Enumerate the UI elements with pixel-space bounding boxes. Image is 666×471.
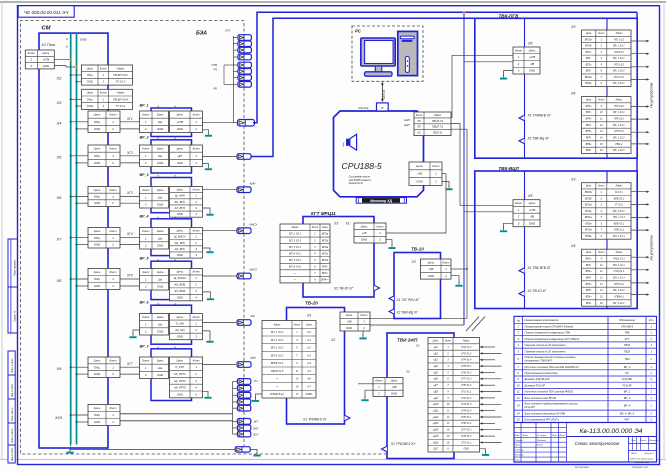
svg-text:ВП2а-: ВП2а- xyxy=(585,82,592,85)
svg-text:Адрес: Адрес xyxy=(615,251,624,254)
diagonal wire pair xyxy=(466,317,479,332)
svg-text:-0В: -0В xyxy=(530,62,534,66)
ТВК-ПГВ plug X2 xyxy=(519,138,525,144)
svg-text:Цепь: Цепь xyxy=(529,48,536,52)
svg-text:2: 2 xyxy=(444,274,447,278)
svg-text:GND: GND xyxy=(177,392,183,396)
svg-text:Х2 ТВИ-ВЦ ХГ: Х2 ТВИ-ВЦ ХГ xyxy=(396,311,419,315)
svg-text:GND: GND xyxy=(87,80,93,84)
svg-text:ВП5-: ВП5- xyxy=(586,137,592,140)
ground bottom connector xyxy=(250,449,257,452)
svg-text:ВП1Б+: ВП1Б+ xyxy=(585,191,593,194)
svg-text:К: К xyxy=(66,45,68,49)
svg-text:+27В: +27В xyxy=(42,57,49,61)
svg-text:УЕ7: УЕ7 xyxy=(254,421,259,424)
svg-text:Адрес: Адрес xyxy=(116,91,125,95)
svg-text:А:2: А:2 xyxy=(306,347,311,350)
wire X10-2 long xyxy=(120,420,233,422)
svg-text:2: 2 xyxy=(144,161,147,165)
wire 24V to TV20 X2 xyxy=(370,324,464,326)
svg-text:ВП_4 Х2:2: ВП_4 Х2:2 xyxy=(271,354,284,357)
svg-text:НГЦ-267: НГЦ-267 xyxy=(525,405,536,409)
connector BEA P1 xyxy=(238,35,252,41)
ВР_1 left table xyxy=(140,111,169,133)
ТВК-ВЦЛ X5 table xyxy=(513,200,540,227)
page bottom edge xyxy=(0,459,666,461)
power block ВР_2 box xyxy=(151,140,192,173)
svg-text:Х1 ТРИ88-5 ХГ: Х1 ТРИ88-5 ХГ xyxy=(302,418,328,422)
ТВК-ВЦЛ X4 table xyxy=(582,249,632,306)
svg-text:ВП_1 Х2:1: ВП_1 Х2:1 xyxy=(289,233,302,236)
connector Х7 table xyxy=(88,228,120,249)
svg-text:+Д8: +Д8 xyxy=(433,390,438,393)
svg-text:ВП_2 Х2:1: ВП_2 Х2:1 xyxy=(613,277,625,280)
svg-text:УП2Х1:2: УП2Х1:2 xyxy=(614,51,624,54)
svg-text:ВП1б: ВП1б xyxy=(322,239,329,242)
svg-text:Адрес: Адрес xyxy=(462,340,471,343)
svg-text:Юдин: Юдин xyxy=(537,444,544,447)
wire VR_6 to connector MN xyxy=(203,322,237,324)
svg-text:2: 2 xyxy=(194,241,197,245)
svg-text:ВП1а-: ВП1а- xyxy=(585,210,592,213)
svg-text:Цепь: Цепь xyxy=(361,224,368,228)
svg-text:УП1 Х1:2: УП1 Х1:2 xyxy=(614,38,625,41)
svg-text:ВР_6: ВР_6 xyxy=(140,301,150,305)
svg-text:Х5: Х5 xyxy=(527,194,532,198)
wire Х5 to buses xyxy=(71,155,88,157)
svg-text:Формат А3: Формат А3 xyxy=(632,465,648,469)
svg-text:-Д17: -Д17 xyxy=(433,448,439,451)
svg-text:Общ: Общ xyxy=(94,413,101,417)
svg-text:GND: GND xyxy=(157,243,163,247)
svg-text:Конт: Конт xyxy=(432,164,440,168)
svg-text:АК_ВПБ: АК_ВПБ xyxy=(173,283,185,287)
svg-text:Цепь: Цепь xyxy=(87,91,94,95)
svg-text:УП3 Х1:3: УП3 Х1:3 xyxy=(461,403,472,406)
svg-text:Т7:Х1-2: Т7:Х1-2 xyxy=(116,104,126,108)
ground VR_4 xyxy=(203,247,211,250)
svg-text:Х9: Х9 xyxy=(56,366,63,371)
svg-text:ВП_2 Х2:2: ВП_2 Х2:2 xyxy=(271,339,284,342)
wires X4 to VR_1 xyxy=(120,121,140,123)
PC tower icon xyxy=(398,31,418,75)
svg-text:Х4: Х4 xyxy=(56,121,63,126)
svg-text:ТВ-10: ТВ-10 xyxy=(411,246,424,251)
svg-text:GND: GND xyxy=(157,329,163,333)
ВР_2 left table xyxy=(140,145,169,167)
svg-text:Цепь: Цепь xyxy=(391,379,398,383)
svg-text:АЗ_ВПБ: АЗ_ВПБ xyxy=(173,289,185,293)
svg-text:ВР_1 Х2:1: ВР_1 Х2:1 xyxy=(613,124,625,127)
svg-text:УП4 Х1:2: УП4 Х1:2 xyxy=(614,76,625,79)
connector BEA P8 xyxy=(238,82,252,88)
svg-text:Цепь: Цепь xyxy=(42,51,49,55)
CPU addr table xyxy=(414,112,451,136)
ТВК-ВЦЛ X3 table xyxy=(582,183,632,240)
block TVI 24/P box xyxy=(387,333,454,459)
svg-text:Х3: Х3 xyxy=(570,25,575,29)
svg-text:АЗ_ВГЬ: АЗ_ВГЬ xyxy=(174,247,185,251)
CPU power table xyxy=(409,162,442,185)
svg-text:CPU188-5: CPU188-5 xyxy=(621,325,634,329)
svg-text:А:6: А:6 xyxy=(306,378,311,381)
svg-text:ВР_1 Х2:1: ВР_1 Х2:1 xyxy=(613,111,625,114)
svg-text:ЛЮ_к Х1:1: ЛЮ_к Х1:1 xyxy=(612,216,626,219)
PC monitor icon xyxy=(361,38,395,66)
svg-text:УП8 Х1:4: УП8 Х1:4 xyxy=(461,384,472,387)
svg-text:Цепь: Цепь xyxy=(322,226,329,229)
svg-text:+27В: +27В xyxy=(529,208,536,212)
svg-text:2: 2 xyxy=(111,372,114,376)
svg-text:Х10: Х10 xyxy=(54,415,63,420)
svg-text:ВП1в: ВП1в xyxy=(322,246,329,249)
ТВК-ВЦЛ output arrows xyxy=(631,191,650,193)
chevron KGT X2 xyxy=(374,285,380,291)
svg-text:Цепь: Цепь xyxy=(427,260,434,264)
svg-text:ВП1+: ВП1+ xyxy=(586,51,593,54)
RS-232 link xyxy=(381,82,384,103)
svg-text:ВП6+: ВП6+ xyxy=(586,296,593,299)
svg-text:Подп. и дата: Подп. и дата xyxy=(11,428,14,443)
svg-text:ВП_2 Х2:1: ВП_2 Х2:1 xyxy=(289,239,302,242)
svg-text:ВНГВ Х1:4: ВНГВ Х1:4 xyxy=(271,362,284,365)
svg-text:Конт: Конт xyxy=(598,185,604,188)
svg-text:Конт: Конт xyxy=(598,99,604,102)
svg-text:Цепь: Цепь xyxy=(586,185,592,188)
svg-text:Конт: Конт xyxy=(100,91,108,95)
svg-text:Наименование компонента: Наименование компонента xyxy=(525,318,559,322)
svg-text:Шв: Шв xyxy=(158,277,163,281)
chevron TV-20 X1 xyxy=(345,415,351,421)
svg-text:Цепь: Цепь xyxy=(157,270,164,274)
svg-text:УТ Х1:1: УТ Х1:1 xyxy=(615,204,624,207)
connector Х8 table xyxy=(88,269,120,290)
page top edge xyxy=(0,1,666,3)
svg-text:ВП2а-: ВП2а- xyxy=(585,222,592,225)
title block xyxy=(514,423,657,463)
TVI X2 power table xyxy=(373,378,403,397)
svg-text:Перв. примен.: Перв. примен. xyxy=(13,259,16,276)
svg-text:Подп. и дата: Подп. и дата xyxy=(11,358,14,373)
connector X10 table xyxy=(88,405,120,426)
svg-text:Адрес: Адрес xyxy=(615,99,624,102)
svg-text:АВХВ Х1:5: АВХВ Х1:5 xyxy=(270,370,284,373)
ВР_4 right table xyxy=(170,228,203,259)
svg-text:GND: GND xyxy=(177,212,183,216)
svg-text:ВР_1 Х2:1: ВР_1 Х2:1 xyxy=(613,137,625,140)
svg-text:УП3 Х1:2: УП3 Х1:2 xyxy=(614,63,625,66)
svg-text:Цепь: Цепь xyxy=(346,313,353,317)
svg-text:Х1 Пит.: Х1 Пит. xyxy=(40,43,56,47)
svg-text:Кв-113.00.00.000 Э4: Кв-113.00.00.000 Э4 xyxy=(579,428,642,435)
svg-text:Цепь: Цепь xyxy=(176,270,183,274)
svg-text:Цепь: Цепь xyxy=(586,32,592,35)
connector Х2 table xyxy=(82,65,133,85)
ВР_6 right table xyxy=(170,314,203,340)
ВР_7 right table xyxy=(170,357,203,398)
svg-text:Конт: Конт xyxy=(142,147,150,151)
svg-text:Конт: Конт xyxy=(360,313,368,317)
svg-text:УП2 Х1:2: УП2 Х1:2 xyxy=(461,397,472,400)
svg-text:А:0: А:0 xyxy=(306,331,311,334)
svg-text:GND: GND xyxy=(177,296,183,300)
svg-text:Конт: Конт xyxy=(445,340,451,343)
svg-text:GND: GND xyxy=(177,253,183,257)
ground KGT xyxy=(386,240,392,246)
svg-text:Конт: Конт xyxy=(109,406,117,410)
power block ВР_1 box xyxy=(151,108,192,137)
svg-text:ВП3+: ВП3+ xyxy=(586,105,593,108)
svg-text:Лист: Лист xyxy=(630,453,637,455)
svg-text:УП1 Х1:1: УП1 Х1:1 xyxy=(461,390,472,393)
svg-text:Адрес: Адрес xyxy=(615,32,624,35)
svg-text:Х2: Х2 xyxy=(405,370,410,374)
svg-text:Справ. №: Справ. № xyxy=(13,310,16,322)
ТВК-ВЦЛ plug X2 xyxy=(519,291,525,297)
svg-text:+Д14: +Д14 xyxy=(433,429,439,432)
svg-text:УП7Х1:2: УП7Х1:2 xyxy=(614,130,624,133)
svg-text:Х5: Х5 xyxy=(527,42,532,46)
svg-text:RS-232: RS-232 xyxy=(359,106,369,110)
svg-text:Л8: Л8 xyxy=(416,119,421,123)
svg-text:ВП5+: ВП5+ xyxy=(586,283,593,286)
margin box stack xyxy=(8,351,15,375)
ВР_5 left table xyxy=(140,269,169,291)
block TV-10 box xyxy=(394,253,441,319)
svg-text:Адрес: Адрес xyxy=(116,66,125,70)
svg-text:кафедра ЭВМ: кафедра ЭВМ xyxy=(635,461,649,464)
svg-text:АК_ВГЬ: АК_ВГЬ xyxy=(174,241,185,245)
svg-text:2: 2 xyxy=(144,284,147,288)
svg-text:ВР_3: ВР_3 xyxy=(140,173,149,177)
svg-text:2: 2 xyxy=(111,284,114,288)
connector BEA P2 xyxy=(238,41,252,47)
svg-text:2: 2 xyxy=(194,161,197,165)
svg-text:Х4: Х4 xyxy=(570,92,575,96)
svg-text:Конт: Конт xyxy=(598,32,604,35)
svg-text:Подп.: Подп. xyxy=(552,434,558,437)
svg-text:ВП1а: ВП1а xyxy=(322,233,329,236)
svg-text:Х2: Х2 xyxy=(56,76,63,81)
svg-text:GND: GND xyxy=(94,372,100,376)
KGT main table xyxy=(280,224,330,283)
svg-text:GND: GND xyxy=(94,161,100,165)
svg-text:+Д5: +Д5 xyxy=(433,371,438,374)
svg-text:Х8: Х8 xyxy=(56,278,63,283)
svg-text:+Д15: +Д15 xyxy=(433,435,439,438)
svg-text:ВР_2: ВР_2 xyxy=(140,135,149,139)
svg-text:ВП3а+: ВП3а+ xyxy=(585,229,593,232)
CM bus ground xyxy=(70,445,72,447)
svg-text:Х3: Х3 xyxy=(570,178,575,182)
svg-text:ВР_3: ВР_3 xyxy=(624,396,631,400)
svg-text:Дата: Дата xyxy=(559,435,567,437)
svg-text:Конт: Конт xyxy=(109,229,117,233)
wire Х3 to buses xyxy=(71,98,82,100)
svg-text:PC: PC xyxy=(625,371,629,375)
wire X1-1 to bus 0 xyxy=(54,58,70,60)
svg-text:GND: GND xyxy=(94,284,100,288)
svg-text:Общ: Общ xyxy=(94,120,101,124)
ТВК-ПГВ X4 table xyxy=(582,97,632,154)
wire bus A drop xyxy=(636,12,638,18)
svg-text:ВЛВ Х2:1: ВЛВ Х2:1 xyxy=(614,222,625,225)
svg-text:АК_РРТ2: АК_РРТ2 xyxy=(173,379,186,383)
svg-text:ТВК: ТВК xyxy=(625,331,630,335)
svg-text:+Д10: +Д10 xyxy=(433,403,439,406)
ground VR_5 xyxy=(203,292,211,296)
svg-text:GND: GND xyxy=(157,284,163,288)
svg-text:Конт: Конт xyxy=(312,226,318,229)
svg-text:Конт: Конт xyxy=(375,379,383,383)
svg-text:УП7 Х1:3: УП7 Х1:3 xyxy=(461,378,472,381)
svg-text:ВП_4 Х2:1: ВП_4 Х2:1 xyxy=(289,252,302,255)
PC dashed box xyxy=(352,26,423,81)
svg-text:На устройства: На устройства xyxy=(650,235,654,260)
svg-text:УП6 Х1:2: УП6 Х1:2 xyxy=(461,371,472,374)
svg-text:—: — xyxy=(293,272,297,275)
svg-text:Блок питания геликонов НО-ПВк: Блок питания геликонов НО-ПВк xyxy=(525,411,566,415)
svg-text:Х1: Х1 xyxy=(345,222,350,226)
connector BEA P5 xyxy=(238,62,252,68)
svg-text:ВНТ: ВНТ xyxy=(254,427,259,430)
svg-text:PC: PC xyxy=(355,29,362,34)
svg-text:ВР_2 Х2:1: ВР_2 Х2:1 xyxy=(613,302,625,305)
svg-text:2: 2 xyxy=(111,201,114,205)
svg-text:Х1 ТРИ88-В ХГ: Х1 ТРИ88-В ХГ xyxy=(527,114,552,118)
svg-text:Конт: Конт xyxy=(442,260,450,264)
wire L8 to PGV X5 xyxy=(451,55,513,117)
svg-text:Fastwel Кл-Б: Fastwel Кл-Б xyxy=(349,182,363,185)
svg-text:Адрес: Адрес xyxy=(290,226,299,229)
svg-text:ВП2-: ВП2- xyxy=(586,70,592,73)
svg-text:+Д2: +Д2 xyxy=(433,352,438,355)
wire X10-1 long xyxy=(120,413,233,415)
BEA bracket wiring xyxy=(233,36,235,123)
svg-text:ВП1Б+: ВП1Б+ xyxy=(585,38,593,41)
svg-text:ВР_4, ВР_5: ВР_4, ВР_5 xyxy=(620,411,635,415)
svg-text:Общ: Общ xyxy=(94,277,101,281)
svg-text:ВП4-: ВП4- xyxy=(586,277,592,280)
svg-text:АИН: АИН xyxy=(249,182,257,186)
svg-text:Шв: Шв xyxy=(158,154,163,158)
bus K teal line xyxy=(76,33,78,444)
svg-text:2: 2 xyxy=(144,202,147,206)
svg-text:ВП2+: ВП2+ xyxy=(322,272,329,275)
svg-text:ВП2а+: ВП2а+ xyxy=(585,216,593,219)
svg-text:Конт: Конт xyxy=(515,201,523,205)
svg-text:+Д16: +Д16 xyxy=(433,441,439,444)
svg-text:ВР_6: ВР_6 xyxy=(624,404,631,408)
svg-text:+27В: +27В xyxy=(529,55,536,59)
svg-text:Монитор ХД: Монитор ХД xyxy=(370,199,392,203)
svg-text:2: 2 xyxy=(29,64,32,68)
svg-text:+5В: +5В xyxy=(391,385,396,389)
svg-text:Х1 ТВК-ВГВ ХГ: Х1 ТВК-ВГВ ХГ xyxy=(527,266,552,270)
svg-text:НТЦ Х1:1: НТЦ Х1:1 xyxy=(614,270,625,273)
svg-text:Конт: Конт xyxy=(142,315,150,319)
svg-text:GND: GND xyxy=(87,104,93,108)
svg-text:ВГВЦЗ В.а1: ВГВЦЗ В.а1 xyxy=(270,393,284,396)
svg-text:+Д3: +Д3 xyxy=(433,359,438,362)
svg-text:Конт: Конт xyxy=(193,113,201,117)
svg-text:О_РРТ: О_РРТ xyxy=(175,365,184,369)
svg-text:ЮУрГУ им. Введенского: ЮУрГУ им. Введенского xyxy=(630,458,655,461)
TV-20 X2 power table xyxy=(340,312,370,331)
svg-text:Цепь: Цепь xyxy=(586,99,592,102)
svg-text:ЧЕ 000.00.00.011-ЭЧ: ЧЕ 000.00.00.011-ЭЧ xyxy=(24,10,69,15)
svg-text:Шв: Шв xyxy=(158,120,163,124)
svg-text:+Д9: +Д9 xyxy=(433,397,438,400)
svg-text:2: 2 xyxy=(194,127,197,131)
svg-text:+Д13: +Д13 xyxy=(433,422,439,425)
svg-text:А:4: А:4 xyxy=(306,362,311,365)
svg-text:Адрес: Адрес xyxy=(615,185,624,188)
svg-text:дискретных ТВИ-24/П: дискретных ТВИ-24/П xyxy=(525,359,552,363)
connector Х6 table xyxy=(88,187,120,207)
margin box group 1 xyxy=(8,239,17,287)
svg-text:Х7: Х7 xyxy=(56,236,63,241)
svg-text:Цепь: Цепь xyxy=(416,164,423,168)
svg-text:ВП4+: ВП4+ xyxy=(586,270,593,273)
svg-text:ТВ-20: ТВ-20 xyxy=(305,300,318,305)
svg-text:ИТВ: ИТВ xyxy=(212,63,218,67)
svg-text:2: 2 xyxy=(194,200,197,204)
svg-text:GND: GND xyxy=(529,69,535,73)
svg-text:Конт: Конт xyxy=(376,224,384,228)
svg-text:Щ_АИН: Щ_АИН xyxy=(175,194,186,198)
svg-text:№: № xyxy=(517,319,520,323)
title block name xyxy=(628,437,630,463)
bus 0 teal line xyxy=(70,33,72,444)
svg-text:Рыбаков: Рыбаков xyxy=(537,440,547,442)
svg-text:Конт: Конт xyxy=(109,188,117,192)
svg-text:Листов 1: Листов 1 xyxy=(643,453,655,455)
svg-text:ВП_2 Х2:1: ВП_2 Х2:1 xyxy=(613,235,625,238)
svg-text:АСУ-М: АСУ-М xyxy=(382,89,386,100)
svg-text:Конт: Конт xyxy=(28,51,36,55)
ТВК-ПГВ plug X1 xyxy=(519,115,525,121)
wire 24V to PGV X5 xyxy=(464,61,513,63)
connector BEA P4 xyxy=(238,54,252,60)
svg-text:Шв: Шв xyxy=(158,366,163,370)
wire Х4 to buses xyxy=(71,121,88,123)
svg-text:2: 2 xyxy=(144,329,147,333)
svg-text:+Д12: +Д12 xyxy=(433,416,439,419)
wire VR_2 to connector xyxy=(203,156,238,158)
svg-text:GND: GND xyxy=(94,127,100,131)
wire bus A xyxy=(253,12,637,122)
svg-text:ВП_3 Х2:2: ВП_3 Х2:2 xyxy=(271,347,284,350)
svg-text:ВП1Б-: ВП1Б- xyxy=(585,45,592,48)
svg-text:2: 2 xyxy=(144,127,147,131)
svg-text:Изм: Изм xyxy=(515,435,520,437)
svg-text:Источник питания TDK-Lambda PM: Источник питания TDK-Lambda PM520 xyxy=(525,390,574,394)
svg-text:2: 2 xyxy=(434,180,437,184)
connector Х4 table xyxy=(88,111,120,133)
svg-text:ВР_2: ВР_2 xyxy=(624,390,631,394)
svg-text:ТВК-ПГВ: ТВК-ПГВ xyxy=(499,14,520,19)
svg-text:ВП2а+: ВП2а+ xyxy=(585,76,593,79)
svg-text:АК_МН: АК_МН xyxy=(174,328,185,332)
svg-text:Конт: Конт xyxy=(294,323,300,326)
svg-text:РВО-2: РВО-2 xyxy=(615,143,623,146)
svg-text:Плата дискретной коммутации КГ: Плата дискретной коммутации КГТ МРЦ11 xyxy=(525,337,580,341)
svg-text:ВР_2 Х2:1: ВР_2 Х2:1 xyxy=(613,289,625,292)
svg-text:Конт: Конт xyxy=(109,270,117,274)
svg-text:А:3: А:3 xyxy=(306,354,311,357)
svg-text:ВП3-: ВП3- xyxy=(586,264,592,267)
